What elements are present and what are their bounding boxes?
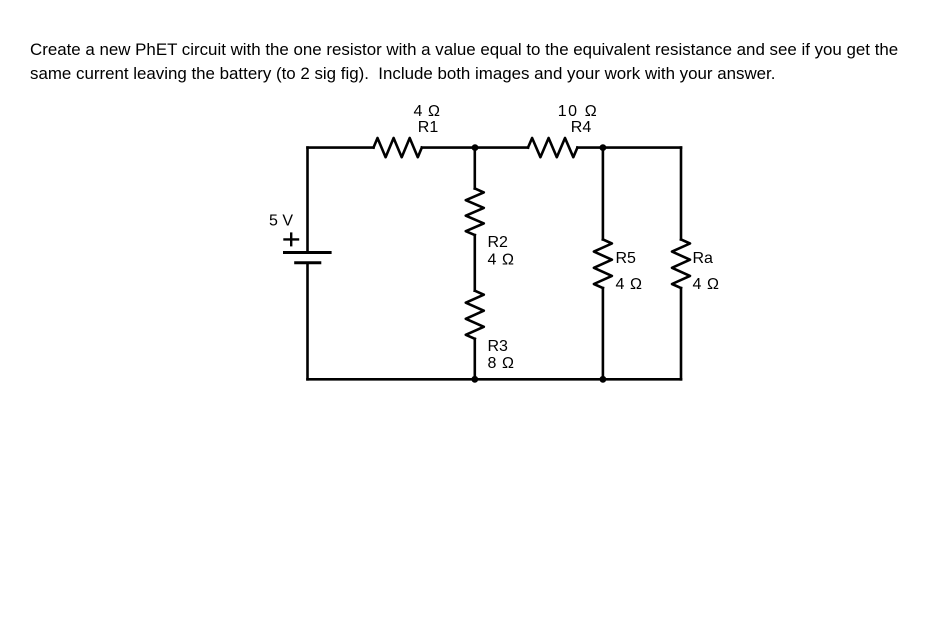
svg-text:R1: R1: [418, 119, 439, 136]
svg-text:R5: R5: [616, 250, 637, 267]
svg-text:4 Ω: 4 Ω: [693, 276, 720, 293]
svg-text:4 Ω: 4 Ω: [616, 276, 643, 293]
svg-text:4 Ω: 4 Ω: [488, 252, 515, 269]
svg-text:8 Ω: 8 Ω: [488, 355, 515, 372]
svg-text:4 Ω: 4 Ω: [413, 103, 440, 120]
svg-text:R4: R4: [571, 119, 592, 136]
svg-text:R2: R2: [488, 234, 509, 251]
svg-text:Ra: Ra: [693, 250, 714, 267]
svg-text:R3: R3: [488, 338, 509, 355]
svg-text:5 V: 5 V: [269, 213, 293, 230]
svg-text:10 Ω: 10 Ω: [558, 103, 599, 120]
